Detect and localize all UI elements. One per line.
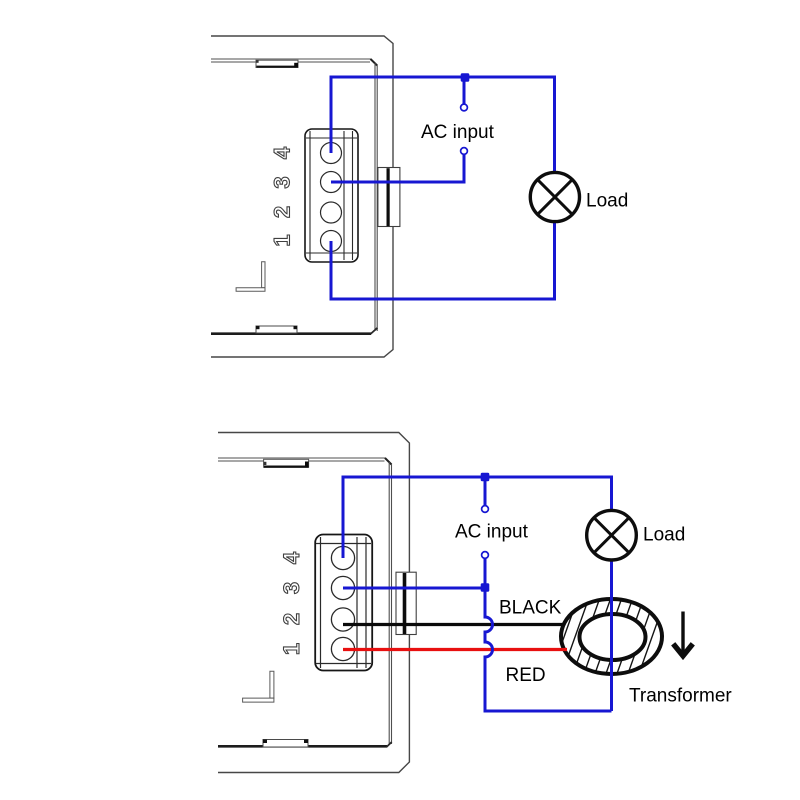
bottom clip tab (bottom device) xyxy=(263,740,308,748)
device inner panel right edge (double line, bottom device) xyxy=(389,462,391,744)
block inner rails xyxy=(309,131,311,260)
svg-text:BLACK: BLACK xyxy=(499,598,562,619)
bottom clip tab on inner bottom edge xyxy=(256,326,297,333)
device inner panel corner bevel (bottom device) xyxy=(385,458,392,465)
lamp Load symbol (bottom) xyxy=(587,510,637,560)
RED wire: terminal 1 to transformer xyxy=(343,648,567,651)
wire: load bottom return to terminal 1 (top) xyxy=(331,222,555,299)
terminal hole 2 (bottom) xyxy=(331,608,354,631)
svg-text:Transformer: Transformer xyxy=(629,686,732,707)
terminal hole 4 (bottom) xyxy=(331,546,354,569)
device inner panel right edge (double line) xyxy=(375,63,377,331)
wire: terminal 4 up and across to load (top) xyxy=(331,77,555,173)
side latch on right edge (bottom device) xyxy=(396,572,416,634)
AC input open terminal upper (bottom) xyxy=(482,506,489,513)
moulded L mark (bottom device) xyxy=(243,671,274,702)
device inner panel corner bevel (top device) xyxy=(371,59,378,66)
wire: AC input upper stub (top) xyxy=(463,77,466,104)
svg-text:3: 3 xyxy=(270,176,295,188)
device inner panel top edge (double line) xyxy=(211,59,371,62)
svg-text:3: 3 xyxy=(279,582,304,594)
terminal hole 1 (bottom) xyxy=(331,637,354,660)
top clip tab (bottom device) xyxy=(264,459,309,467)
junction dot at terminal-3 node (bottom) xyxy=(481,583,490,592)
terminal hole 4 (top) xyxy=(321,143,342,164)
junction dot at AC feed (bottom) xyxy=(481,473,490,482)
svg-text:AC input: AC input xyxy=(455,522,529,543)
side latch on right edge of top device xyxy=(378,168,400,227)
wire: terminal 4 up and across to load (bottom) xyxy=(343,477,612,558)
svg-text:2: 2 xyxy=(270,206,295,218)
svg-text:1: 1 xyxy=(270,234,295,246)
svg-text:AC input: AC input xyxy=(421,122,495,143)
wire: AC input upper stub (bottom) xyxy=(484,477,487,505)
svg-text:4: 4 xyxy=(270,146,295,159)
AC input open terminal upper (top) xyxy=(461,104,468,111)
device shell outer outline (bottom device) xyxy=(218,433,409,773)
lamp Load symbol (top) xyxy=(530,172,579,221)
svg-text:4: 4 xyxy=(279,551,304,564)
device inner panel bottom edge (thick, bottom device) xyxy=(218,745,387,748)
direction arrow xyxy=(673,612,693,656)
top clip tab on inner top edge xyxy=(256,60,298,67)
terminal hole 1 (top) xyxy=(321,231,342,252)
AC input open terminal lower (bottom) xyxy=(482,552,489,559)
junction dot (top) xyxy=(461,73,470,82)
svg-text:2: 2 xyxy=(279,613,304,625)
terminal hole 2 (top) xyxy=(321,202,342,223)
BLACK wire: terminal 2 to transformer xyxy=(343,623,565,626)
svg-text:1: 1 xyxy=(279,643,304,655)
device inner panel bottom edge (thick) xyxy=(211,332,371,335)
device shell outer outline (top device) xyxy=(211,36,393,357)
terminal block (bottom device) xyxy=(315,535,372,671)
moulded L mark (top device) xyxy=(236,262,265,292)
terminal hole 3 (bottom) xyxy=(331,576,354,599)
svg-text:Load: Load xyxy=(586,191,628,212)
svg-text:Load: Load xyxy=(643,525,685,546)
device inner panel top edge (double line, bottom device) xyxy=(218,458,386,461)
svg-text:RED: RED xyxy=(506,665,546,686)
terminal block (top device) xyxy=(305,129,358,262)
AC input open terminal lower (top) xyxy=(461,148,468,155)
wire: terminal 3 to junction (bottom) xyxy=(343,587,485,590)
wire: terminal 3 to AC input lower terminal (top) xyxy=(331,155,464,182)
terminal hole 3 (top) xyxy=(321,172,342,193)
wire: load bottom through transformer to bottom rail (bottom) xyxy=(610,560,613,711)
transformer toroid (current transformer) xyxy=(548,592,679,682)
wire: AC input lower terminal down with hops over black and red, to bottom rail xyxy=(485,559,612,712)
